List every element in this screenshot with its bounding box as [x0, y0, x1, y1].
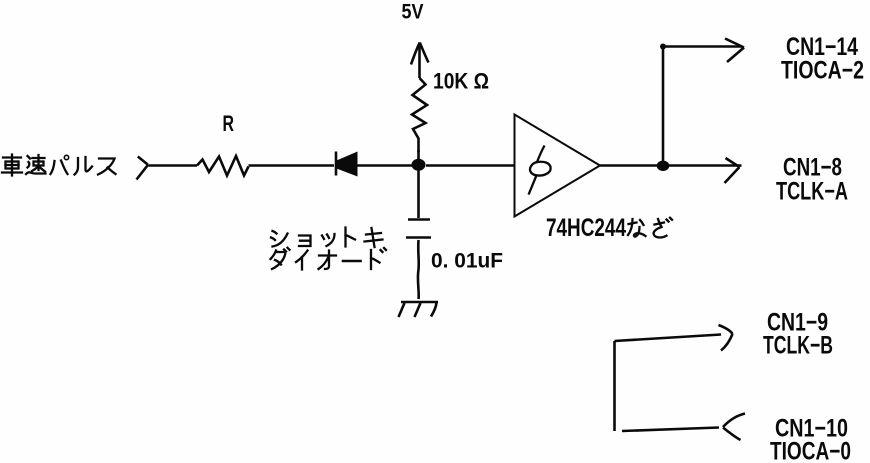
wire diode to node: [356, 164, 420, 167]
svg-text:TIOCA−0: TIOCA−0: [770, 438, 851, 463]
capacitor top plate: [408, 218, 430, 221]
bottom-right vertical wire: [613, 341, 616, 431]
wire buffer output to arrow CN1-8: [600, 164, 742, 167]
node junction output: [657, 161, 670, 171]
wire from CN1-10 terminal: [622, 428, 719, 432]
capacitor stub from node: [417, 166, 420, 219]
arrow to CN1-9: [719, 325, 733, 351]
arrow to CN1-8: [725, 158, 740, 183]
wire node to buffer input: [426, 164, 514, 167]
svg-text:5V: 5V: [402, 1, 424, 24]
corner blob: [660, 44, 666, 50]
diode D1 schottky : cathode bar: [335, 152, 338, 176]
svg-text:TIOCA−2: TIOCA−2: [781, 57, 864, 85]
resistor R: [197, 156, 249, 176]
hysteresis symbol inside buffer: [537, 147, 544, 163]
svg-text:74HC244: 74HC244: [546, 214, 626, 242]
arrow to CN1-14: [725, 39, 744, 63]
wire to CN1-9 arrow: [615, 335, 722, 342]
wire resistor to node: [417, 150, 420, 165]
wire input to resistor R: [149, 164, 198, 167]
svg-text:0. 01uF: 0. 01uF: [431, 250, 503, 273]
diode D1 schottky : triangle: [337, 152, 358, 177]
label ダイオード: [271, 248, 387, 270]
node junction main: [412, 159, 426, 171]
svg-text:TCLK−B: TCLK−B: [763, 332, 833, 360]
svg-text:10K Ω: 10K Ω: [433, 69, 489, 94]
capacitor wire down to ground: [417, 240, 420, 299]
wire to CN1-14 arrow: [663, 45, 742, 48]
ground symbol: [401, 301, 438, 304]
label ショットキ: [271, 228, 383, 248]
svg-text:R: R: [223, 111, 235, 136]
resistor 10K ohm (vertical): [412, 78, 427, 152]
wire vertical output node up: [662, 46, 665, 166]
svg-text:TCLK−A: TCLK−A: [776, 178, 848, 206]
power 5V arrow: [418, 45, 421, 78]
buffer U1 74HC244 triangle: [515, 115, 601, 217]
capacitor bottom plate: [406, 236, 431, 239]
input terminal CN1-10 (open chevron): [723, 414, 745, 441]
label 車速パルス (vehicle speed pulse): [2, 155, 116, 176]
wire resistor to diode: [249, 164, 335, 167]
input terminal (open chevron): [137, 157, 149, 180]
